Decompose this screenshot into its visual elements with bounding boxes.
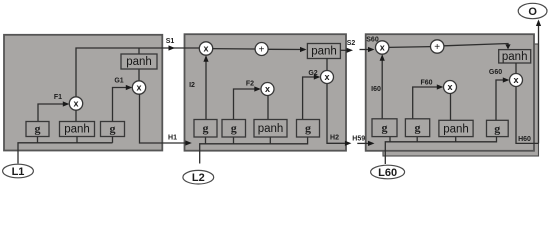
arrowhead S2 bbox=[347, 48, 354, 53]
svg-text:I60: I60 bbox=[371, 86, 381, 93]
wire: g1 B3 up into x circle (I60 riser) bbox=[381, 56, 383, 119]
svg-text:L2: L2 bbox=[192, 172, 205, 184]
svg-text:x: x bbox=[380, 42, 385, 52]
multiplier circle F1 bbox=[69, 97, 82, 110]
svg-text:O: O bbox=[528, 6, 537, 18]
stub g1 B3 bbox=[389, 137, 391, 142]
svg-text:H2: H2 bbox=[330, 135, 339, 142]
svg-text:g: g bbox=[231, 121, 237, 135]
wire: G60 down to H60 line and out to O riser bbox=[516, 87, 539, 144]
arrowhead into G60 bbox=[503, 77, 510, 82]
svg-text:panh: panh bbox=[126, 56, 152, 68]
input ellipse L1 bbox=[3, 164, 34, 178]
multiplier circle B2 (top-left x) bbox=[199, 42, 212, 55]
wire S2 to block3 x-circle bbox=[360, 49, 373, 51]
wire: O riser up right side bbox=[538, 21, 540, 143]
wire: F1 bottom to panh box B1 bbox=[75, 110, 77, 121]
box g (B1 right) bbox=[101, 122, 125, 137]
arrowhead into F60 bbox=[437, 84, 444, 89]
svg-text:panh: panh bbox=[64, 124, 90, 136]
box g2 B2 bbox=[222, 120, 246, 138]
svg-text:G1: G1 bbox=[114, 78, 123, 85]
svg-text:S2: S2 bbox=[347, 40, 356, 47]
box g1 B2 bbox=[194, 120, 217, 138]
svg-text:x: x bbox=[203, 43, 208, 53]
wire: x to + B3 bbox=[389, 46, 431, 49]
svg-text:g: g bbox=[35, 122, 41, 136]
wire: g3 B2 up and into G2 bbox=[303, 77, 319, 120]
svg-text:F2: F2 bbox=[246, 81, 254, 88]
stub g1 B2 bbox=[205, 137, 207, 144]
box panh bottom B3 bbox=[439, 120, 473, 136]
multiplier circle G2 bbox=[321, 71, 334, 84]
wire H59 into block3 bbox=[357, 142, 372, 144]
wire: g box to F1 circle bbox=[38, 104, 68, 122]
box g3 B2 bbox=[297, 120, 320, 138]
svg-text:g: g bbox=[382, 121, 388, 135]
svg-text:+: + bbox=[259, 45, 265, 56]
wire: + to panh box B2 bbox=[268, 48, 305, 50]
cell block 3 bbox=[366, 34, 534, 151]
svg-text:G60: G60 bbox=[489, 69, 502, 76]
stub panh B2 bbox=[269, 137, 271, 144]
wire H2 out of block bbox=[345, 142, 350, 144]
box g1 B3 bbox=[372, 119, 397, 137]
input ellipse L60 bbox=[371, 165, 405, 179]
wire: g2 B3 up and into F60 bbox=[413, 87, 442, 119]
stub g2 B3 bbox=[416, 137, 418, 142]
svg-text:g: g bbox=[415, 121, 421, 135]
wire: g3 B3 up and into G60 bbox=[496, 80, 508, 120]
svg-text:H60: H60 bbox=[518, 136, 531, 143]
multiplier circle F60 bbox=[444, 81, 457, 94]
output ellipse O bbox=[518, 3, 547, 18]
svg-text:F60: F60 bbox=[420, 80, 432, 87]
svg-text:x: x bbox=[513, 75, 518, 85]
multiplier circle G1 bbox=[132, 81, 145, 94]
input ellipse L2 bbox=[183, 170, 214, 184]
wire: g1 B2 up into x circle (I2 riser) bbox=[205, 57, 207, 120]
box panh bottom B2 bbox=[254, 120, 287, 138]
arrowhead into block3 x bbox=[368, 47, 375, 52]
svg-text:L1: L1 bbox=[12, 166, 25, 178]
bottom connector B3 bbox=[385, 137, 496, 164]
arrowhead into x bottom B2 bbox=[203, 55, 208, 62]
svg-text:H59: H59 bbox=[352, 136, 365, 143]
svg-text:L60: L60 bbox=[378, 167, 397, 179]
svg-text:x: x bbox=[136, 82, 141, 92]
svg-text:panh: panh bbox=[311, 46, 337, 58]
box g2 B3 bbox=[405, 119, 429, 137]
wire: F60 to panh bottom B3 bbox=[450, 94, 452, 121]
box panh (B1 bottom) bbox=[60, 122, 95, 137]
wire: + to panh top B3 bbox=[444, 44, 508, 49]
svg-text:S1: S1 bbox=[166, 38, 175, 45]
svg-text:I2: I2 bbox=[189, 82, 195, 89]
svg-text:F1: F1 bbox=[54, 94, 62, 101]
stub panh B3 bbox=[455, 137, 457, 142]
arrowhead H1 into block 2 bbox=[185, 140, 192, 145]
stub g2 B1 bbox=[112, 137, 114, 143]
box panh top B3 bbox=[499, 50, 531, 63]
wire H1 into block2 interior handled above; bottom connector B2 bbox=[200, 137, 308, 164]
multiplier circle F2 bbox=[261, 83, 274, 96]
arrowhead S1 bbox=[169, 45, 176, 50]
stub panh B1 bbox=[76, 137, 78, 143]
svg-text:H1: H1 bbox=[168, 135, 177, 142]
block 3 shadow rectangle bbox=[383, 44, 539, 156]
svg-text:panh: panh bbox=[443, 124, 469, 136]
stub g1 B1 bbox=[37, 137, 39, 143]
arrowhead H59 bbox=[368, 141, 375, 146]
svg-text:x: x bbox=[324, 72, 329, 82]
svg-text:g: g bbox=[203, 121, 209, 135]
svg-text:panh: panh bbox=[502, 51, 528, 63]
svg-text:x: x bbox=[265, 84, 270, 94]
wire: G1 bottom down to H1 line bbox=[140, 94, 191, 143]
wire: g2 box up and into G1 circle bbox=[113, 88, 131, 122]
box g3 B3 bbox=[487, 120, 509, 136]
svg-text:x: x bbox=[73, 98, 78, 108]
svg-text:g: g bbox=[110, 122, 116, 136]
arrowhead into x bottom B3 bbox=[380, 54, 385, 61]
arrowhead into F1 bbox=[63, 101, 70, 106]
arrowhead into G2 bbox=[314, 74, 321, 79]
box panh (B1 top) bbox=[121, 54, 157, 69]
wire S2 out of block2 bbox=[340, 49, 351, 51]
wire: B1 bottom connector with stubs bbox=[18, 143, 113, 164]
svg-text:+: + bbox=[434, 42, 440, 53]
arrowhead H2 bbox=[345, 141, 352, 146]
adder circle B3 bbox=[431, 40, 444, 53]
multiplier circle G60 bbox=[510, 74, 523, 87]
multiplier circle B3 x bbox=[376, 41, 389, 54]
stub g2 B2 bbox=[233, 137, 235, 144]
arrowhead into O bbox=[536, 20, 541, 27]
arrowhead into panh B2 bbox=[300, 47, 307, 52]
svg-text:x: x bbox=[447, 82, 452, 92]
box panh (B2 top) bbox=[307, 44, 340, 59]
svg-text:panh: panh bbox=[258, 123, 284, 135]
wire: panh2 box B1 bottom to G1 top bbox=[138, 69, 140, 81]
svg-text:g: g bbox=[494, 122, 500, 136]
arrowhead into panh top B3 bbox=[505, 44, 510, 49]
wire: panh top B2 down to G2 bbox=[326, 59, 328, 71]
cell block 1 bbox=[4, 35, 162, 151]
arrowhead into G1 bbox=[126, 85, 133, 90]
wire: F2 bottom to panh bottom box B2 bbox=[267, 96, 269, 120]
wire: panh box B1 top stub to S1 line bbox=[138, 48, 140, 54]
wire: G2 down to H2 line out bbox=[327, 84, 345, 144]
adder circle B2 (+) bbox=[255, 43, 268, 56]
arrowhead into F2 bbox=[254, 86, 260, 91]
wire S1: from F1 riser corner across to block2 x-circle bbox=[76, 48, 200, 97]
wire: g2 B2 up and into F2 bbox=[234, 89, 260, 120]
cell block 2 bbox=[185, 34, 347, 151]
wire: panh top B3 down to G60 bbox=[515, 63, 517, 73]
svg-text:g: g bbox=[305, 121, 311, 135]
wire: x to + in B2 bbox=[213, 48, 255, 50]
box g (B1 left) bbox=[26, 122, 49, 137]
